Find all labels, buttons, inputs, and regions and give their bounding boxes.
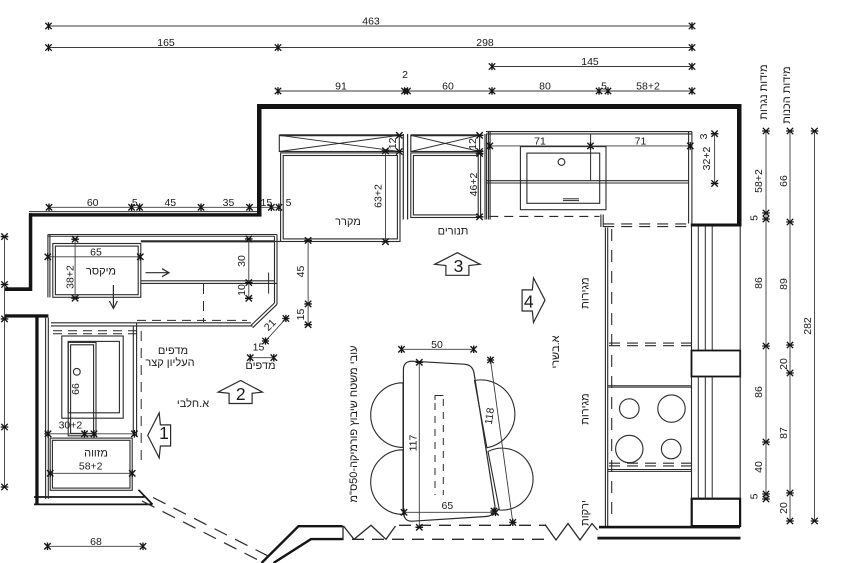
counter step corner — [601, 215, 603, 228]
dimension 32+2 right return — [701, 131, 718, 187]
svg-text:2: 2 — [236, 384, 246, 404]
svg-text:מגירות: מגירות — [580, 277, 592, 308]
window glazing lower — [698, 377, 712, 499]
svg-text:65: 65 — [442, 500, 454, 512]
block arrow 1 left — [148, 413, 171, 458]
dimension 58+2 pantry — [47, 461, 135, 478]
table leg dashed detail — [435, 396, 443, 496]
window pier middle — [692, 351, 741, 377]
wall right return bottom — [691, 224, 742, 227]
dimension 15 below 45 — [295, 304, 312, 328]
svg-text:מידות נגרות: מידות נגרות — [758, 64, 770, 119]
sink inner box — [527, 153, 600, 203]
svg-text:58+2: 58+2 — [636, 81, 660, 93]
svg-text:118: 118 — [483, 407, 497, 425]
dimension 38+2 mixer — [65, 236, 79, 301]
left counter bevel corner — [251, 303, 277, 328]
svg-text:15: 15 — [295, 309, 307, 321]
svg-text:1: 1 — [159, 423, 169, 443]
cooktop burner large bottom-left — [616, 435, 643, 462]
sink counter front lines — [486, 181, 689, 183]
svg-text:א.חלבי: א.חלבי — [177, 397, 209, 410]
svg-text:מידות הכנות: מידות הכנות — [781, 66, 793, 124]
svg-text:65: 65 — [90, 246, 102, 258]
wall left upper vertical — [29, 213, 33, 291]
svg-text:3: 3 — [698, 133, 710, 139]
wall bottom diagonal segment — [262, 526, 343, 563]
dimension left outer — [1, 233, 9, 490]
cooktop burner small top-left — [620, 399, 640, 419]
chair left upper — [371, 383, 403, 448]
svg-text:68: 68 — [90, 536, 102, 548]
svg-text:60: 60 — [87, 197, 99, 209]
window wall outer line — [739, 227, 741, 499]
svg-text:86: 86 — [753, 277, 765, 289]
svg-text:מדפים: מדפים — [158, 345, 188, 357]
wall cabinet band over ovens — [411, 135, 480, 151]
svg-text:10: 10 — [236, 284, 248, 296]
svg-text:5: 5 — [601, 81, 607, 93]
cooktop burner small bottom-right — [661, 439, 681, 459]
mixer cabinet box — [53, 244, 141, 298]
refrigerator box — [281, 153, 400, 242]
dimension 117 table — [408, 359, 424, 530]
svg-text:15: 15 — [253, 342, 265, 354]
dimension 60 5 45 35 15 5 left — [46, 197, 292, 211]
sink drain marks — [563, 199, 579, 201]
wall left lower vertical — [35, 317, 38, 504]
svg-text:א.בשרי: א.בשרי — [550, 335, 562, 368]
right counter dashed vertical — [611, 229, 613, 519]
dimension line B right 66 89 20 87 20 — [778, 128, 794, 524]
dimension 12 oven band — [467, 132, 484, 155]
cooktop bottom dashed — [609, 463, 692, 466]
right counter divider dashed — [609, 343, 692, 346]
svg-text:5: 5 — [749, 215, 761, 221]
left counter short divider — [268, 273, 270, 294]
svg-text:80: 80 — [539, 81, 551, 93]
svg-text:58+2: 58+2 — [79, 461, 103, 473]
svg-text:66: 66 — [778, 175, 790, 187]
svg-text:4: 4 — [524, 292, 534, 312]
wall bottom right — [597, 499, 740, 540]
dimension line A right 58+2 5 86 86 40 5 — [749, 128, 770, 502]
block arrow 2 up — [218, 381, 262, 405]
dimension 118 table diagonal — [483, 356, 517, 526]
svg-text:282: 282 — [802, 317, 814, 335]
cooktop bottom solid — [608, 470, 692, 472]
left cabinet edge lines — [46, 318, 49, 499]
svg-text:71: 71 — [635, 136, 647, 148]
upper cabinet dashed vertical left — [140, 331, 142, 460]
wall opening dashed lines bottom — [352, 525, 546, 539]
sink counter back lines — [486, 132, 692, 134]
dimension 165+298 top — [45, 37, 695, 51]
dimension 46+2 ovens — [468, 150, 484, 220]
svg-text:145: 145 — [581, 56, 599, 68]
svg-text:30: 30 — [236, 255, 248, 267]
svg-text:63+2: 63+2 — [373, 184, 385, 208]
upper cabinet dashed left counter — [137, 319, 247, 321]
dimension 30+2 ticks — [44, 430, 138, 438]
dimension 65 mixer — [45, 246, 144, 260]
svg-text:תנורים: תנורים — [438, 226, 469, 238]
left faucet circle — [73, 368, 80, 375]
left sink counter mid box — [68, 341, 119, 412]
window glazing upper — [698, 227, 712, 351]
svg-text:91: 91 — [335, 81, 347, 93]
sink counter right edge — [689, 132, 692, 224]
right counter front edge — [605, 228, 607, 527]
upper cabinet dashed vertical mid — [203, 284, 205, 322]
arrow down mixer slide — [109, 285, 117, 309]
svg-text:165: 165 — [157, 37, 175, 49]
wall top — [257, 104, 742, 109]
svg-text:87: 87 — [778, 427, 790, 439]
wall left stub — [5, 287, 32, 291]
sink outer box — [520, 147, 606, 210]
svg-text:50: 50 — [431, 339, 443, 351]
dimension line C right 282 overall — [802, 128, 818, 524]
svg-text:12: 12 — [467, 138, 479, 150]
arrow right mixer slide — [146, 269, 170, 277]
wall bottom left — [34, 490, 153, 505]
upper cabinet dashed horizontal left — [53, 331, 137, 334]
dimension 45 wall gap — [295, 237, 312, 307]
left counter shelf bottom lines — [141, 281, 277, 284]
svg-text:5: 5 — [749, 493, 761, 499]
dimension 15 shelves — [247, 342, 277, 362]
svg-text:מיקסר: מיקסר — [86, 266, 116, 278]
svg-text:12: 12 — [387, 137, 399, 149]
faucet circle — [558, 159, 565, 166]
svg-text:60: 60 — [442, 81, 454, 93]
svg-text:38+2: 38+2 — [65, 265, 77, 289]
left counter front vertical — [133, 323, 136, 436]
svg-text:מגירות: מגירות — [580, 393, 592, 424]
bay right cap lines — [485, 132, 490, 220]
svg-text:35: 35 — [223, 197, 235, 209]
svg-text:העליון קצר: העליון קצר — [145, 356, 194, 369]
svg-text:89: 89 — [778, 278, 790, 290]
dimension 68 bottom left — [44, 536, 146, 550]
bay divider wall — [403, 134, 407, 220]
dining table — [403, 361, 495, 521]
pantry box — [50, 438, 132, 490]
svg-text:66: 66 — [70, 383, 82, 395]
svg-text:71: 71 — [534, 136, 546, 148]
label 66 left sink — [70, 383, 82, 395]
svg-text:45: 45 — [295, 266, 307, 278]
break symbol zigzag right — [545, 524, 598, 541]
wall top-left vertical — [257, 104, 262, 217]
svg-text:מזווה: מזווה — [84, 448, 108, 460]
cooktop section top line — [608, 386, 692, 387]
dimension 65 table bottom — [401, 500, 499, 516]
wall left middle stub — [5, 314, 48, 317]
svg-text:40: 40 — [753, 461, 765, 473]
svg-text:20: 20 — [778, 502, 790, 514]
dimension 145 top — [489, 56, 695, 70]
left tall unit box — [68, 342, 96, 435]
dimension 463 overall top — [45, 16, 695, 30]
block arrow 4 right — [522, 278, 545, 323]
svg-text:463: 463 — [362, 16, 380, 28]
chair right lower — [488, 448, 533, 510]
svg-text:58+2: 58+2 — [753, 169, 765, 193]
wall cabinet band over refrigerator — [279, 135, 399, 151]
label 30+2 left — [59, 420, 83, 432]
dimension 91 2 60 80 5 58+2 top — [275, 69, 695, 95]
svg-text:ירקות: ירקות — [580, 500, 592, 526]
upper cabinet dashed line over sink — [489, 215, 599, 217]
svg-text:מקרר: מקרר — [335, 216, 361, 228]
chair left lower — [371, 450, 403, 515]
left counter back lines — [48, 235, 277, 242]
svg-text:מדפים: מדפים — [245, 360, 275, 372]
break symbol zigzag left — [343, 525, 396, 540]
door opening dashed diagonals — [142, 498, 274, 563]
dimension 21 diagonal — [262, 315, 290, 345]
svg-text:2: 2 — [402, 69, 408, 81]
block arrow 3 up — [435, 253, 480, 276]
dimension 3 small right — [698, 133, 710, 139]
left counter front lines — [51, 323, 253, 326]
cooktop burner large top-right — [658, 395, 685, 422]
svg-text:עובי משטח שיבוץ פורמיקה-50ס"מ: עובי משטח שיבוץ פורמיקה-50ס"מ — [348, 345, 360, 502]
svg-text:298: 298 — [476, 37, 494, 49]
dimension 12 fridge band — [387, 132, 403, 155]
svg-text:46+2: 46+2 — [468, 173, 480, 197]
fridge bottom line extension — [262, 240, 281, 242]
sink counter divider — [590, 134, 592, 181]
upper cabinet dashed double right — [603, 224, 688, 227]
oven box — [411, 153, 481, 218]
svg-text:30+2: 30+2 — [59, 420, 83, 432]
chair right upper — [475, 380, 515, 448]
svg-text:86: 86 — [753, 386, 765, 398]
dimension 30 and 10 shelf depth — [236, 236, 253, 302]
dimension 50 table top — [398, 339, 477, 353]
svg-text:32+2: 32+2 — [701, 147, 713, 171]
svg-text:117: 117 — [408, 434, 420, 451]
svg-text:20: 20 — [778, 358, 790, 370]
wall right vertical — [737, 104, 742, 227]
left counter corner vertical — [275, 235, 278, 305]
left sink counter outer box — [62, 336, 123, 418]
left counter row left edge — [48, 235, 50, 298]
svg-text:15: 15 — [261, 197, 273, 209]
svg-text:45: 45 — [164, 197, 176, 209]
dimension 71 71 sink counter — [486, 136, 694, 150]
wall left horizontal — [29, 212, 262, 217]
window wall inner line — [691, 227, 693, 499]
svg-text:5: 5 — [132, 197, 138, 209]
svg-text:3: 3 — [454, 256, 464, 276]
dimension 63+2 refrigerator — [373, 148, 390, 245]
svg-text:5: 5 — [286, 197, 292, 209]
